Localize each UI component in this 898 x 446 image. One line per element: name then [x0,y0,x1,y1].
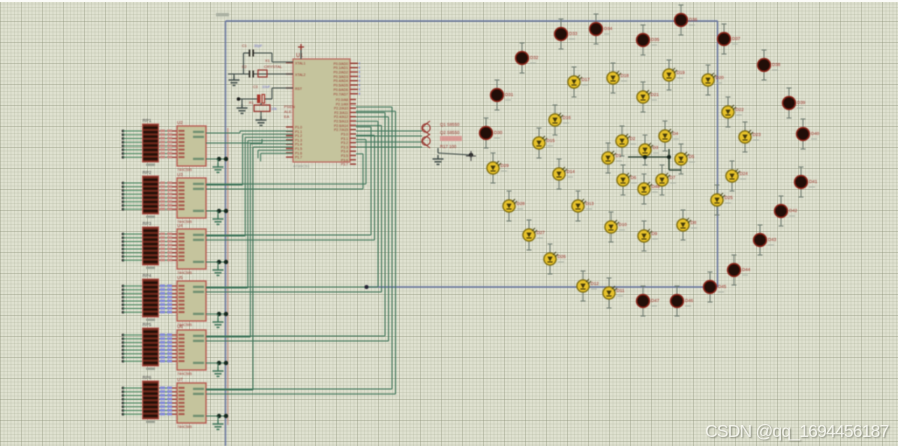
resistor pack RP2 [143,170,159,218]
svg-text:P1.7: P1.7 [295,156,302,160]
svg-text:D18: D18 [621,73,630,78]
wire U3 pin4 to bus B [206,154,363,189]
LED D35 dark [637,25,660,55]
LED D17 yellow [568,67,590,97]
resistor pack RP3 [143,221,159,269]
LED D18 yellow [607,63,629,93]
wire U2 pin1 to bus A [206,131,240,133]
LED D30 dark [480,118,503,148]
svg-text:C1: C1 [242,44,247,48]
LED D40 dark [797,119,820,149]
svg-text:D33: D33 [569,31,578,36]
wire U6 pin4 to bus B [206,117,389,341]
svg-text:EA: EA [284,114,290,119]
shift register U2 [177,120,206,172]
LED D31 dark [491,80,514,110]
input wires block 4 [122,285,177,314]
wire U4 pin4 to bus B [206,135,375,240]
svg-text:D11: D11 [617,288,625,293]
svg-text:RP5: RP5 [143,322,152,327]
svg-text:D17: D17 [582,77,591,82]
svg-text:D7: D7 [670,175,676,180]
microcontroller U1 AT89C51 [284,53,360,169]
wire R1 [260,103,262,116]
svg-text:D31: D31 [505,92,514,97]
ground U3 [213,211,224,224]
svg-text:D4: D4 [673,131,679,136]
resistor R1 [249,101,277,111]
svg-text:D23: D23 [753,132,762,137]
svg-text:U4: U4 [177,223,183,228]
LED D48 yellow [638,174,660,204]
node marker [466,151,476,161]
input wires block 2 [122,182,177,211]
svg-text:U7: U7 [177,377,183,382]
svg-text:U5: U5 [177,275,183,280]
svg-text:D26: D26 [558,254,567,259]
svg-text:D30: D30 [494,130,503,135]
resistor pack RP5 [143,322,159,370]
wire U5 pin1 to bus A [206,141,248,288]
wire U3 pin3 [206,209,228,213]
wire U7 pin1 to bus A [206,147,253,390]
svg-text:D48: D48 [652,184,661,189]
wire MCU to transistors [356,131,422,147]
LED D21 yellow [637,82,659,112]
capacitor C3 electrolytic [253,85,271,103]
svg-text:D36: D36 [689,17,698,22]
svg-text:D32: D32 [530,55,539,60]
svg-text:AT89C51: AT89C51 [293,164,310,169]
LED D42 dark [775,196,798,226]
svg-text:D24: D24 [740,171,749,176]
ground U6 [213,363,224,376]
crystal X1 [258,58,283,77]
LED D11 yellow [603,278,625,308]
svg-text:D27: D27 [537,230,546,235]
wire U4 pin2 to bus B [206,127,371,235]
LED D27 yellow [523,220,545,250]
LED D1 yellow [602,143,622,173]
LED D3 yellow [639,135,659,165]
wire blue bus bottom horizontal [366,286,718,288]
svg-text:74HC595: 74HC595 [177,425,192,429]
svg-text:XTAL1: XTAL1 [295,62,305,66]
svg-text:D10: D10 [619,222,628,227]
svg-text:RP2: RP2 [143,170,152,175]
wire U5 pin2 to bus B [206,121,378,287]
transistor Q2 [422,134,430,148]
shift register U6 [177,324,206,376]
svg-text:D44: D44 [742,267,751,272]
svg-text:R17 100: R17 100 [440,144,457,149]
LED D26 yellow [544,244,566,274]
input wires block 1 [122,130,177,159]
input wires block 6 [122,387,177,416]
svg-text:U2: U2 [177,120,183,125]
LED D33 dark [555,19,578,49]
LED D23 yellow [739,122,761,152]
svg-text:RP3: RP3 [143,221,152,226]
svg-text:D25: D25 [725,195,734,200]
svg-text:Q1 S8550: Q1 S8550 [440,122,460,127]
net label top corner [216,13,229,16]
svg-text:P0.7/AD7: P0.7/AD7 [333,92,348,96]
wire U4 pin3 [206,260,228,264]
svg-text:D28: D28 [517,201,526,206]
LED D46 dark [671,286,694,316]
svg-text:C3: C3 [253,85,258,89]
svg-text:RP4: RP4 [143,273,152,278]
svg-text:D9: D9 [652,231,658,236]
wire U7 pin2 to bus B [206,107,392,389]
svg-text:D22: D22 [736,107,745,112]
LED D15 yellow [533,128,555,158]
wire crystal network [228,53,293,74]
svg-text:D14: D14 [567,169,576,174]
LED D32 dark [516,43,539,73]
watermark [705,421,889,442]
resistor pack RP1 [143,118,159,166]
capacitor C2 [242,65,253,78]
wire U6 pin1 to bus A [206,144,250,337]
svg-text:D20: D20 [716,75,725,80]
wire red rail [227,128,229,425]
svg-text:R1: R1 [249,101,254,105]
pin numbers block 6 [160,387,172,416]
ground reset bottom [256,116,267,125]
svg-text:74HC595: 74HC595 [177,372,192,376]
LED D19 yellow [663,60,685,90]
ground transistors [433,155,444,164]
LED D12 yellow [577,271,599,301]
resistor pack RP4 [143,273,159,321]
svg-text:D15: D15 [547,138,556,143]
ground reset left [237,99,248,113]
svg-text:D39: D39 [797,100,806,105]
LED D44 dark [728,255,751,285]
svg-text:RP6: RP6 [143,375,152,380]
wire blue bus top horizontal [226,20,718,22]
shift register U3 [177,172,206,224]
LED D37 dark [718,24,741,54]
svg-text:D29: D29 [501,163,510,168]
svg-text:D21: D21 [651,92,660,97]
svg-text:D47: D47 [651,298,660,303]
LED D8 yellow [677,210,697,240]
wire U2 pin3 [206,157,228,161]
input wires block 3 [122,233,177,262]
LED D47 dark [637,286,660,316]
LED D29 yellow [487,153,509,183]
label Q1 Q2 values [440,122,462,149]
LED D2 yellow [616,126,636,156]
LED D14 yellow [553,159,575,189]
wire bus A to MCU P1 [240,131,293,161]
junction blue-green [365,285,369,289]
junction node [469,153,473,157]
LED D41 dark [795,167,818,197]
power pin VCC above U1 [298,44,304,59]
svg-text:P2.7/A15: P2.7/A15 [334,128,348,132]
svg-text:D19: D19 [677,70,686,75]
svg-text:RP1: RP1 [143,118,152,123]
pin numbers block 3 [160,233,172,262]
svg-text:Q2 S8550: Q2 S8550 [440,130,460,135]
svg-text:D13: D13 [586,201,595,206]
LED D13 yellow [572,191,594,221]
svg-text:XTAL2: XTAL2 [295,73,305,77]
pin numbers block 5 [160,334,172,363]
LED D28 yellow [503,191,525,221]
svg-text:D12: D12 [591,281,600,286]
LED D4 yellow [659,121,679,151]
svg-text:U1: U1 [296,53,303,59]
wire U2 pin2 to bus A [206,139,262,143]
shift register U4 [177,223,206,275]
svg-text:D2: D2 [630,136,636,141]
LED D38 dark [758,50,781,80]
LED D7 yellow [656,165,676,195]
ground U2 [213,159,224,172]
wire U6 pin2 to bus B [206,113,385,336]
svg-text:D42: D42 [789,208,798,213]
wire U7 pin4 to bus B [206,111,396,394]
svg-text:D38: D38 [772,62,781,67]
pin numbers block 4 [160,285,172,314]
svg-text:P3.7: P3.7 [341,163,348,167]
svg-text:D40: D40 [811,131,820,136]
svg-text:D16: D16 [563,115,572,120]
ground U7 [213,416,224,429]
svg-text:D46: D46 [685,298,694,303]
svg-text:D6: D6 [631,175,637,180]
LED D34 dark [590,14,613,44]
pin numbers block 2 [160,182,172,211]
svg-text:D43: D43 [768,237,777,242]
svg-text:D34: D34 [604,26,613,31]
LED D10 yellow [605,212,627,242]
svg-text:D37: D37 [732,36,741,41]
wire transistor emitter [438,148,471,155]
svg-text:D41: D41 [809,179,818,184]
svg-text:RST: RST [295,87,303,91]
LED D22 yellow [722,97,744,127]
wire U3 pin1 to bus A [206,134,243,185]
svg-text:D8: D8 [691,220,697,225]
LED D6 yellow [617,165,637,195]
svg-text:30pF: 30pF [254,44,263,48]
wire blue bus left vertical [225,21,227,446]
wire U3 pin2 to bus B [206,140,366,185]
LED D16 yellow [549,105,571,135]
LED D36 dark [675,5,698,35]
LED D43 dark [754,225,777,255]
svg-text:10uF: 10uF [262,85,271,89]
wire reset net [237,88,293,99]
wire blue bus right vertical [717,21,719,287]
ground U5 [213,314,224,327]
svg-text:U3: U3 [177,172,183,177]
LED D20 yellow [702,65,724,95]
wire U5 pin3 [206,312,228,316]
shift register U7 [177,377,206,429]
wire U6 pin3 [206,361,228,365]
LED D25 yellow [711,185,733,215]
input wires block 5 [122,334,177,363]
LED D24 yellow [726,161,748,191]
svg-text:C2: C2 [242,65,247,69]
svg-text:D35: D35 [651,37,660,42]
transistor Q1 [422,121,430,135]
pin numbers block 1 [160,130,172,159]
svg-text:D3: D3 [653,145,659,150]
wire U7 pin3 [206,414,228,418]
svg-text:X1: X1 [265,58,271,63]
svg-text:U6: U6 [177,324,183,329]
LED D5 yellow [675,144,695,174]
junction reset [237,97,241,101]
wire U5 pin4 to bus B [206,126,382,293]
LED D39 dark [783,88,806,118]
svg-text:CRYSTAL: CRYSTAL [264,64,283,69]
wire center interconnect [628,149,681,170]
ground U4 [213,262,224,275]
ground crystal [228,74,240,85]
capacitor C1 [242,44,263,57]
svg-text:D45: D45 [718,284,727,289]
LED D9 yellow [638,221,658,251]
wire U4 pin1 to bus A [206,137,245,236]
LED D45 dark [704,272,727,302]
svg-text:D5: D5 [689,154,695,159]
resistor pack RP6 [143,375,159,423]
shift register U5 [177,275,206,327]
svg-text:10k: 10k [271,107,277,111]
